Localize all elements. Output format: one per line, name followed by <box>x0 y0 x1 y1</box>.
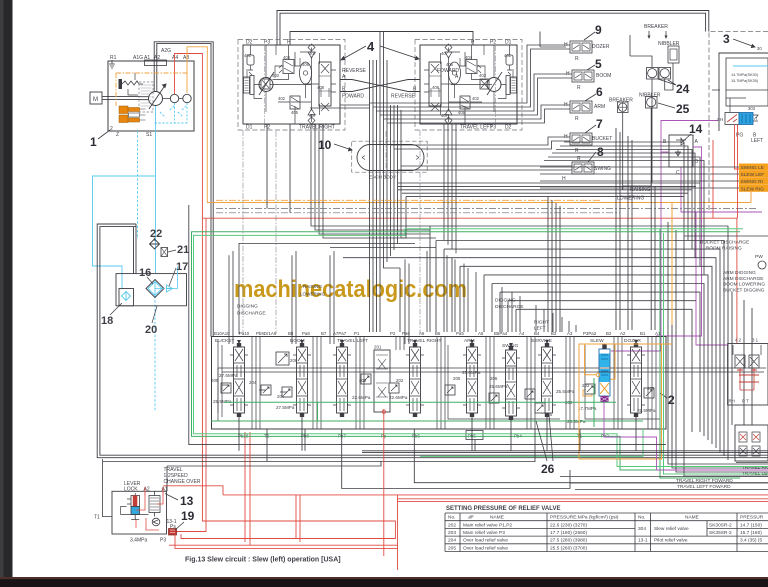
wire pilot drops left sections <box>229 251 409 344</box>
svg-text:Slew relief valve: Slew relief valve <box>654 526 689 532</box>
svg-text:27.5 (280) (3980): 27.5 (280) (3980) <box>550 538 587 544</box>
A1G A1 port block <box>145 60 167 66</box>
box 3 inner housing <box>719 53 768 131</box>
svg-text:20: 20 <box>145 324 157 336</box>
svg-text:204: 204 <box>448 538 456 544</box>
accumulator 401L <box>506 55 513 65</box>
svg-text:A7Pa7: A7Pa7 <box>333 331 347 336</box>
svg-text:26: 26 <box>541 462 555 476</box>
electric motor M <box>90 92 102 104</box>
svg-text:A2: A2 <box>144 487 150 493</box>
valve section labels <box>215 338 641 349</box>
svg-text:P2: P2 <box>390 331 396 336</box>
spool service <box>538 343 556 417</box>
wire orange right drop <box>671 203 673 326</box>
svg-text:205: 205 <box>453 376 461 381</box>
wire pump internals <box>128 73 138 95</box>
svg-text:PRESSUR: PRESSUR <box>740 514 764 520</box>
svg-text:P2: P2 <box>490 40 496 46</box>
valve 21 <box>161 248 168 257</box>
spool boom <box>293 343 311 417</box>
wire green return main <box>192 232 741 470</box>
spool arm <box>463 343 481 417</box>
svg-text:D1: D1 <box>505 40 512 46</box>
svg-text:25.6MPa: 25.6MPa <box>462 370 481 375</box>
wire orange dashdot bus <box>216 199 600 201</box>
wire cyan tank in box3 <box>733 65 768 67</box>
svg-text:25.5MPa: 25.5MPa <box>213 399 232 404</box>
check 407 top <box>308 44 315 51</box>
wire green tank link <box>420 429 643 456</box>
svg-text:No.: No. <box>448 514 455 520</box>
svg-text:403: 403 <box>479 73 487 78</box>
travel pilot box <box>735 425 768 461</box>
slew motor box <box>728 344 768 406</box>
svg-text:Pa8: Pa8 <box>302 331 310 336</box>
wire green low pressure gallery <box>211 402 643 421</box>
wire green drop left <box>194 229 768 467</box>
svg-text:7: 7 <box>596 117 603 131</box>
node labels travel foward <box>676 465 768 490</box>
wire travel left internals <box>441 45 510 122</box>
wire orange slew highlight <box>579 344 662 459</box>
spool travel right <box>406 343 424 417</box>
svg-text:14.7 (150): 14.7 (150) <box>740 522 762 528</box>
svg-text:A3: A3 <box>183 55 189 61</box>
node arrows at ports <box>237 340 638 347</box>
check 407L bottom <box>445 117 452 124</box>
port labels pump <box>110 48 189 138</box>
svg-text:ARM DISCHARGE: ARM DISCHARGE <box>723 276 764 282</box>
svg-text:SLEW RIG: SLEW RIG <box>741 186 765 192</box>
wire left staircase extras <box>239 243 452 334</box>
valve bottom port labels <box>238 434 609 439</box>
callouts 16-22 <box>101 228 189 336</box>
svg-text:201: 201 <box>374 345 382 350</box>
svg-text:BOOM: BOOM <box>596 73 611 79</box>
wire travel drain dashdot verticals <box>243 130 420 334</box>
case drain dashdot <box>264 45 266 124</box>
valve 405 <box>290 96 300 109</box>
svg-text:SETTING PRESSURE OF RELIEF VAL: SETTING PRESSURE OF RELIEF VALVE <box>446 506 560 512</box>
valve 403 <box>261 79 270 89</box>
node labels arm/boom/bucket <box>723 270 765 293</box>
svg-text:D1: D1 <box>246 125 253 131</box>
wire drain S1 <box>155 106 157 274</box>
svg-text:DOZER: DOZER <box>592 44 610 50</box>
svg-text:SK35SR-2: SK35SR-2 <box>709 530 732 536</box>
shuttle 406 <box>300 62 312 84</box>
svg-text:BREAKER: BREAKER <box>609 98 633 104</box>
svg-text:205: 205 <box>448 545 456 551</box>
wire travel P top bus <box>290 32 473 46</box>
gear pump P2 <box>170 94 178 102</box>
svg-text:A2: A2 <box>620 331 626 336</box>
overload relief service <box>525 389 535 399</box>
wire travel left extra links <box>424 45 513 112</box>
svg-text:SH: SH <box>717 117 723 122</box>
main relief 202 left <box>361 374 371 384</box>
svg-text:RH: RH <box>729 399 735 404</box>
svg-text:407: 407 <box>441 113 449 118</box>
svg-text:Main relief valve P1,P2: Main relief valve P1,P2 <box>463 522 512 528</box>
wire red from valve Pp area <box>245 432 300 545</box>
svg-text:304: 304 <box>638 526 646 532</box>
svg-text:LOWERING: LOWERING <box>300 292 325 297</box>
svg-text:PW: PW <box>755 254 763 260</box>
svg-text:14: 14 <box>689 122 703 136</box>
svg-text:R: R <box>577 85 581 91</box>
swivel stadium <box>357 145 424 171</box>
svg-text:2: 2 <box>110 126 113 132</box>
svg-text:30: 30 <box>757 46 762 51</box>
drive shaft <box>102 97 149 100</box>
svg-text:TRAVEL LEFT: TRAVEL LEFT <box>460 125 493 131</box>
svg-text:A4: A4 <box>172 55 178 61</box>
wire breaker lines down <box>623 35 673 190</box>
svg-text:R: R <box>575 56 579 62</box>
lever lock box <box>112 491 167 534</box>
wire top return pair inner <box>280 13 706 45</box>
wire drain Z dashed <box>137 131 139 239</box>
check valve 17 <box>167 285 173 292</box>
wire red pilot A3 <box>177 218 207 531</box>
svg-text:22.6 (230) (3270): 22.6 (230) (3270) <box>550 522 587 528</box>
wire swivel dashdot <box>385 131 387 180</box>
setting pressure table <box>445 506 768 552</box>
svg-text:4 2: 4 2 <box>735 338 742 343</box>
svg-text:SWING LE: SWING LE <box>741 165 764 171</box>
counterbalance spool 408 <box>319 62 331 106</box>
wire T1 to tank <box>102 459 112 517</box>
svg-text:P3Pa2: P3Pa2 <box>583 331 597 336</box>
wire staircase to valve pilots <box>400 128 728 460</box>
svg-text:Pb9Dr1A9: Pb9Dr1A9 <box>256 331 277 336</box>
svg-text:3.4MPa: 3.4MPa <box>130 538 147 544</box>
check 407L top <box>445 44 452 51</box>
svg-text:M: M <box>93 97 98 103</box>
wire travel port drops <box>267 124 290 213</box>
svg-text:REVERSE: REVERSE <box>391 94 416 100</box>
svg-text:BOOM LOWERING: BOOM LOWERING <box>723 282 765 288</box>
svg-text:Z: Z <box>116 132 119 138</box>
svg-text:15.7MPa(SK35): 15.7MPa(SK35) <box>731 79 759 83</box>
svg-text:Pa10: Pa10 <box>239 331 250 336</box>
svg-text:25.6MPa: 25.6MPa <box>489 384 508 389</box>
svg-text:9: 9 <box>595 23 602 37</box>
svg-text:3: 3 <box>723 32 730 46</box>
wire breaker arrows <box>649 31 666 37</box>
svg-text:A: A <box>754 116 757 121</box>
filter 22 <box>150 239 160 249</box>
travel left dashed enclosure <box>415 40 522 131</box>
travel right dashed enclosure <box>238 40 345 131</box>
svg-text:17.7 (180) (2560): 17.7 (180) (2560) <box>550 530 587 536</box>
connector 19 <box>169 529 177 536</box>
svg-text:P3: P3 <box>264 40 270 46</box>
breaker pedal circles 24 <box>647 68 659 80</box>
valve 404 <box>283 60 294 74</box>
regulator dashed box <box>139 82 153 112</box>
svg-text:1: 1 <box>90 135 97 149</box>
spool swing <box>502 346 520 420</box>
svg-text:REVERSE: REVERSE <box>342 68 367 74</box>
wire travel crossover <box>340 80 420 92</box>
svg-text:NAME: NAME <box>685 514 699 520</box>
pilot valve 9 DOZER <box>566 41 592 53</box>
svg-text:402: 402 <box>278 96 286 101</box>
wire breaker bus horizontals <box>540 142 739 275</box>
svg-text:19: 19 <box>181 509 195 523</box>
svg-text:A2G: A2G <box>161 48 171 54</box>
counterbalance spool 408L <box>429 62 441 106</box>
svg-text:B7: B7 <box>321 331 327 336</box>
wire red outputs right <box>175 534 398 548</box>
wire travel foward label lines <box>560 463 768 490</box>
valve 403L <box>480 79 489 89</box>
svg-text:B10A10: B10A10 <box>214 331 230 336</box>
wire lever lock internals <box>121 493 149 515</box>
wire P1 delivery up-over <box>154 42 213 337</box>
wire valve inner frame left <box>218 341 330 421</box>
pilot supply nest (pump to system) <box>116 11 751 539</box>
wire purple right drop <box>696 212 727 345</box>
main pump P1 <box>149 92 163 106</box>
regulator spring <box>120 80 143 88</box>
svg-text:13: 13 <box>180 494 194 508</box>
svg-text:22: 22 <box>150 228 162 240</box>
load check 206 <box>276 352 289 365</box>
svg-text:25.5 (260) (3700): 25.5 (260) (3700) <box>550 545 587 551</box>
svg-text:A3: A3 <box>567 331 573 336</box>
filter 16 <box>146 280 164 298</box>
svg-text:R1: R1 <box>110 55 117 61</box>
box 3 dashed enclosure <box>709 32 768 211</box>
pump unit box 1 <box>108 61 194 131</box>
overload relief 205 bucket <box>221 383 231 393</box>
svg-text:R: R <box>575 116 579 122</box>
svg-text:25.5MPa: 25.5MPa <box>556 389 575 394</box>
svg-text:BUCKET DIGGING: BUCKET DIGGING <box>723 287 765 293</box>
wire valve interior verticals <box>252 337 656 430</box>
svg-text:Main relief valve P3: Main relief valve P3 <box>463 530 505 536</box>
shuttle 406L <box>449 62 461 84</box>
overload relief arm <box>445 385 455 395</box>
wire center pilot bundle <box>370 32 402 333</box>
wire red Pp drop <box>383 409 385 556</box>
wire tank right leg <box>134 224 137 274</box>
svg-text:C: C <box>676 170 680 176</box>
svg-text:16: 16 <box>139 267 151 279</box>
nibbler pedal circle 25 <box>646 97 658 109</box>
case drain dashdot L <box>495 45 497 124</box>
svg-text:10: 10 <box>318 138 332 152</box>
svg-text:DISCHARGE: DISCHARGE <box>237 311 266 317</box>
svg-text:P3: P3 <box>160 538 166 544</box>
wire bus remote to valve horizontals <box>310 32 700 197</box>
svg-text:PRESSURE:MPa (kgf/cm²) (psi): PRESSURE:MPa (kgf/cm²) (psi) <box>550 514 619 520</box>
spool dozer <box>627 343 645 417</box>
wire red pilot bus <box>202 218 737 343</box>
svg-text:303: 303 <box>748 106 756 111</box>
wire pilot drops to valve <box>427 251 576 332</box>
valve 404L <box>466 60 477 74</box>
svg-text:TRAVEL RIGHT: TRAVEL RIGHT <box>299 125 335 131</box>
overload relief 204 boom <box>282 387 292 397</box>
spool slew (active, cyan) <box>583 345 610 403</box>
travel right box <box>243 45 340 124</box>
svg-text:17: 17 <box>176 261 188 273</box>
filter sub box <box>116 274 187 306</box>
wire suction main <box>93 176 156 289</box>
svg-text:25: 25 <box>676 102 690 116</box>
swivel dashed box <box>352 141 428 172</box>
wire purple 14 A to slew pilot <box>656 147 702 336</box>
relief table red frame <box>223 495 768 570</box>
valve 405L <box>460 96 470 109</box>
svg-text:B4: B4 <box>534 331 540 336</box>
svg-text:LEFT: LEFT <box>751 138 763 144</box>
nibbler pedal box <box>668 46 679 63</box>
orange highlight labels <box>739 164 768 193</box>
solenoid valve 13 <box>131 496 140 507</box>
parking brake L <box>511 77 517 93</box>
wire green right verticals <box>660 229 740 478</box>
wire tank return doubles <box>362 451 768 453</box>
svg-text:14.7MPa(SK30): 14.7MPa(SK30) <box>731 73 759 77</box>
solenoid block 2 (orange) <box>119 106 128 114</box>
gear pump P3 <box>183 94 191 102</box>
svg-text:4: 4 <box>367 39 375 54</box>
svg-text:Over load relief valve: Over load relief valve <box>463 538 508 544</box>
svg-text:13-1: 13-1 <box>638 538 648 544</box>
svg-text:202: 202 <box>448 522 456 528</box>
spool bucket <box>230 343 248 417</box>
svg-text:machinecatalogic.com: machinecatalogic.com <box>234 276 467 303</box>
svg-text:A5: A5 <box>478 331 484 336</box>
svg-text:SLEW LEF: SLEW LEF <box>741 172 765 178</box>
svg-text:22.6MPa: 22.6MPa <box>352 395 371 400</box>
accumulator 401 <box>247 55 254 65</box>
parking brake <box>244 77 250 93</box>
left dark binding strip <box>0 0 13 579</box>
svg-text:203: 203 <box>582 383 590 388</box>
svg-text:204: 204 <box>277 394 285 399</box>
wire red supply into box <box>145 487 163 496</box>
swivel joint 10 <box>318 138 427 180</box>
wire dashdot pilot buses <box>216 208 758 210</box>
strainer 18 box <box>119 289 134 306</box>
wire tank return outer <box>97 224 768 458</box>
svg-text:Pilot relief valve: Pilot relief valve <box>654 538 688 544</box>
svg-text:P T: P T <box>742 399 749 404</box>
svg-text:3 1: 3 1 <box>752 338 759 343</box>
svg-text:202: 202 <box>396 378 404 383</box>
svg-text:Fig.13 Slew circuit : Slew (le: Fig.13 Slew circuit : Slew (left) operat… <box>185 557 341 564</box>
svg-text:P1: P1 <box>354 331 360 336</box>
breaker pedal small <box>618 102 629 113</box>
svg-text:SK30SR-2: SK30SR-2 <box>709 522 732 528</box>
overload relief 204 bucket <box>261 385 271 395</box>
svg-text:B8: B8 <box>288 331 294 336</box>
svg-text:RAISING: RAISING <box>303 284 322 289</box>
svg-text:DIGGING: DIGGING <box>237 304 258 310</box>
svg-text:408: 408 <box>432 85 440 90</box>
wire orange A2 <box>187 47 751 203</box>
control valve outline <box>212 337 667 430</box>
wire red pilot A4 <box>175 54 396 539</box>
overload relief dozer <box>644 388 654 398</box>
svg-text:SWING RI: SWING RI <box>741 179 763 185</box>
svg-text:TRAVEL RIGHT: TRAVEL RIGHT <box>407 338 441 344</box>
check 407 bottom <box>308 117 315 124</box>
wire right edge verticals <box>668 222 768 476</box>
wire red inside box <box>136 496 163 530</box>
svg-text:22.6MPa: 22.6MPa <box>389 395 408 400</box>
svg-text:FOWARD: FOWARD <box>342 94 364 100</box>
pilot valve 8 SWING <box>568 162 594 174</box>
svg-text:ARM: ARM <box>594 104 605 110</box>
wire tank return inner <box>100 227 768 456</box>
svg-text:S1: S1 <box>146 132 152 138</box>
svg-text:24: 24 <box>676 82 690 96</box>
suction / drain cyan lines <box>93 103 188 412</box>
wire pump internal drains <box>155 103 187 123</box>
wire P2 delivery up-over <box>157 43 211 336</box>
strainer 18 element <box>122 292 131 301</box>
svg-text:402: 402 <box>472 96 480 101</box>
svg-text:B1: B1 <box>640 331 646 336</box>
wire valve internal gallery <box>218 368 766 413</box>
center inlet 201 <box>374 350 390 412</box>
spool travel left <box>333 343 351 417</box>
svg-text:NAME: NAME <box>490 514 504 520</box>
wire orange dashdot in pump <box>116 73 187 106</box>
svg-text:D2: D2 <box>246 40 253 46</box>
svg-text:LOCK: LOCK <box>124 487 138 493</box>
overload relief swing <box>489 393 499 403</box>
svg-text:BREAKER: BREAKER <box>644 24 668 30</box>
svg-text:25.5MPa: 25.5MPa <box>637 408 656 413</box>
svg-text:DOZER: DOZER <box>624 338 641 344</box>
pilot valve 7 BUCKET <box>566 133 592 145</box>
svg-text:6: 6 <box>596 85 603 99</box>
svg-text:BUCKET: BUCKET <box>592 136 612 142</box>
wire purple 303 to 14 <box>611 121 718 352</box>
svg-text:No.: No. <box>638 514 645 520</box>
wire Pb drops <box>103 414 768 491</box>
main relief 202 right <box>389 383 399 393</box>
bottom dark bar <box>0 577 768 587</box>
pilot relief 13-1 <box>152 518 160 526</box>
svg-text:206: 206 <box>290 358 298 363</box>
svg-text:203: 203 <box>448 530 456 536</box>
wire travel right extra links <box>247 45 336 112</box>
svg-text:Over load relief valve: Over load relief valve <box>463 545 508 551</box>
wire purple slew pilot down <box>604 402 768 470</box>
slew relief 203 <box>585 384 595 394</box>
crossover labels <box>342 68 459 100</box>
svg-text:401: 401 <box>504 53 512 58</box>
svg-text:CHANGE OVER: CHANGE OVER <box>164 479 201 485</box>
svg-text:3.4 (35) (5: 3.4 (35) (5 <box>740 538 762 544</box>
svg-text:T1: T1 <box>94 515 100 521</box>
wire remote valve drops <box>370 45 569 170</box>
travel left box <box>420 45 517 124</box>
svg-text:2: 2 <box>668 393 675 407</box>
svg-text:21: 21 <box>177 244 189 256</box>
svg-text:407: 407 <box>309 113 317 118</box>
